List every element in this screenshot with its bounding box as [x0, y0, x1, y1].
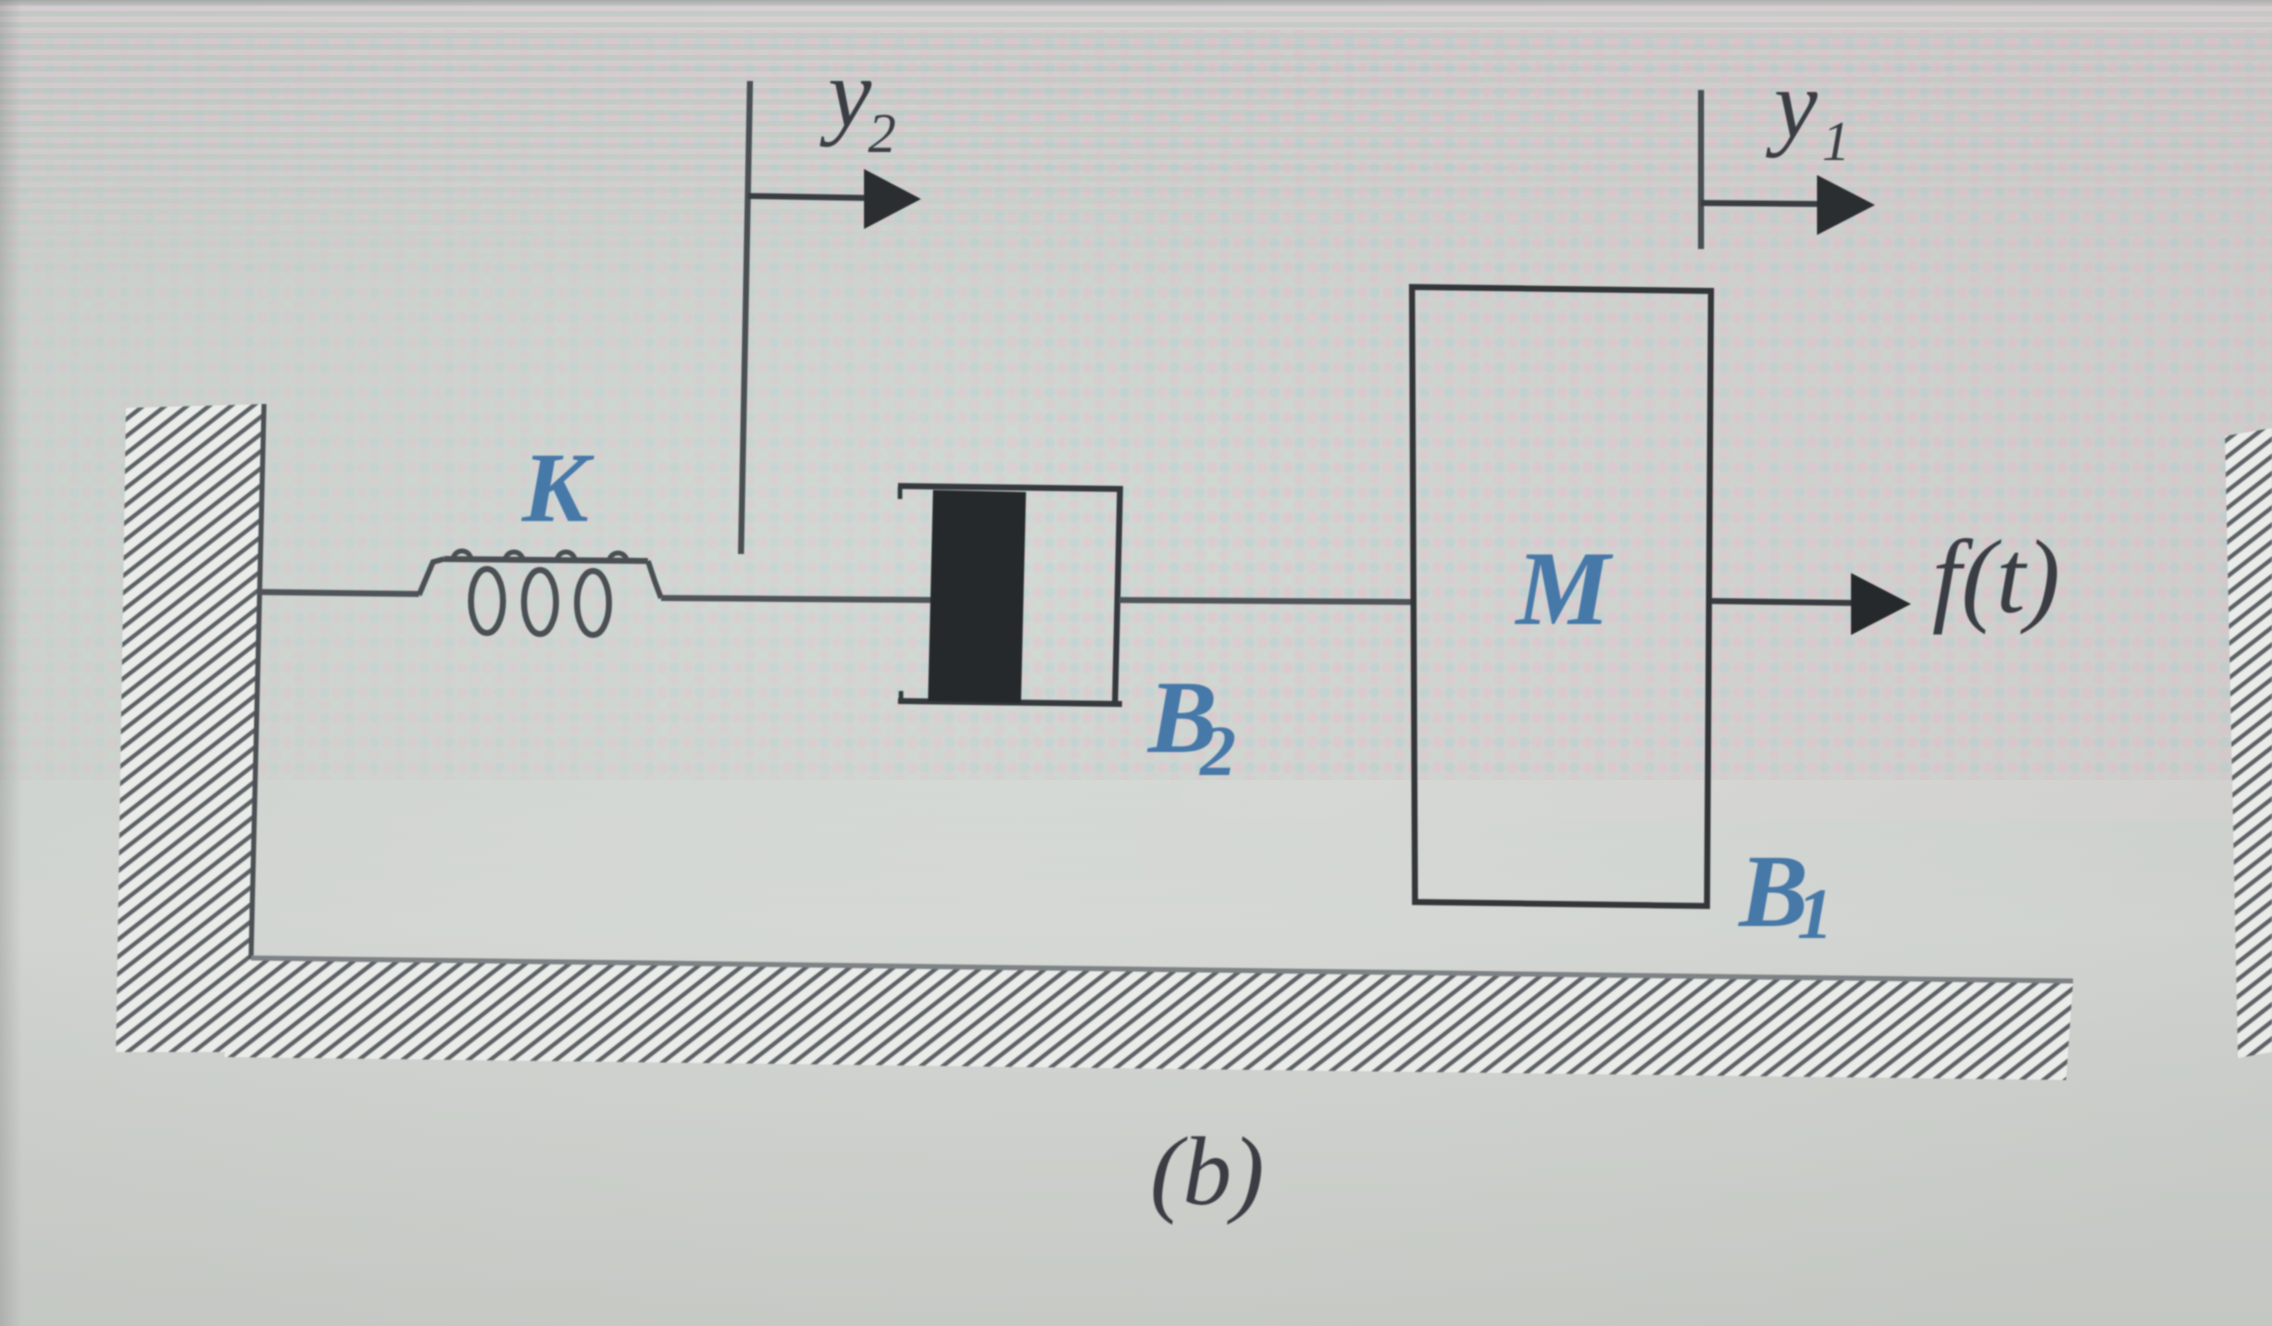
svg-text:1: 1 — [1822, 111, 1850, 173]
svg-text:M: M — [1514, 530, 1614, 647]
node y2 reference line — [741, 81, 750, 554]
svg-text:2: 2 — [868, 103, 896, 165]
reference line y1 — [1698, 90, 1704, 249]
force arrow f(t) — [1711, 573, 1911, 635]
right wall hatching — [2225, 428, 2272, 1058]
svg-text:2: 2 — [1199, 711, 1236, 791]
label M — [1514, 530, 1614, 647]
caption (b) — [1150, 1118, 1264, 1226]
rod from damper to mass — [1119, 600, 1412, 602]
damper B2 cylinder — [898, 486, 1123, 704]
mass M body — [1412, 287, 1711, 906]
ground line — [251, 958, 2073, 981]
svg-text:(b): (b) — [1150, 1118, 1264, 1226]
wall edge line — [251, 404, 264, 959]
svg-text:K: K — [521, 432, 595, 543]
wall (left, fixed support) hatching — [116, 404, 266, 1052]
damper B2 piston — [928, 490, 1026, 703]
arrow y1 — [1701, 175, 1875, 235]
arrow y2 — [748, 169, 921, 229]
spring K — [419, 551, 661, 635]
label f(t) — [1932, 518, 2060, 635]
wire from wall to spring — [258, 592, 419, 594]
label B1 — [1738, 834, 1833, 954]
label y1 — [1765, 51, 1850, 173]
svg-text:y: y — [819, 40, 872, 148]
ground hatching — [224, 959, 2073, 1080]
svg-text:1: 1 — [1797, 874, 1833, 954]
label B2 — [1147, 660, 1236, 791]
svg-text:y: y — [1765, 51, 1818, 159]
wire from spring to damper — [661, 598, 932, 600]
label K — [521, 432, 595, 543]
label y2 — [819, 40, 896, 165]
svg-text:f(t): f(t) — [1932, 518, 2060, 635]
